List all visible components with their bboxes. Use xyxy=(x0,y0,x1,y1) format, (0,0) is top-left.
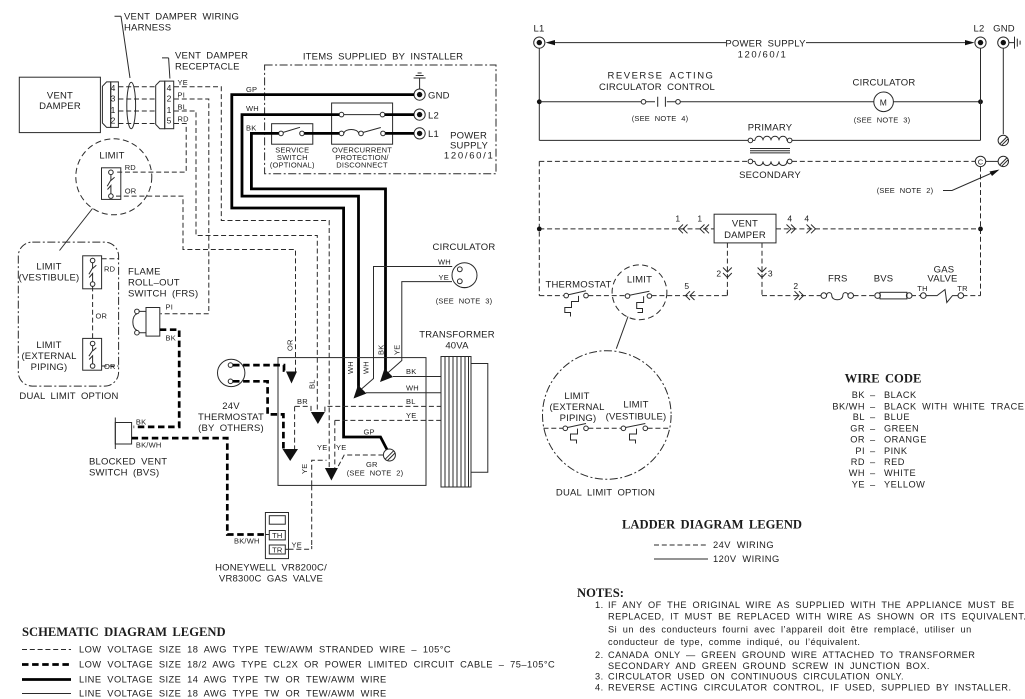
leader to receptacle xyxy=(162,58,170,79)
svg-text:GP: GP xyxy=(246,85,257,94)
vent damper box xyxy=(19,77,100,132)
node right vent damper rung xyxy=(978,227,983,232)
svg-text:4: 4 xyxy=(167,83,172,93)
left rail L1 solid xyxy=(538,48,540,140)
svg-text:THERMOSTAT: THERMOSTAT xyxy=(198,412,264,423)
leader to harness xyxy=(115,16,131,78)
svg-text:LINE VOLTAGE SIZE 18 AWG TYPE: LINE VOLTAGE SIZE 18 AWG TYPE TW OR TEW/… xyxy=(79,689,387,699)
arrow into L2 xyxy=(965,40,975,45)
node left vent damper rung xyxy=(537,227,542,232)
wire YE circulator to junction box xyxy=(384,282,452,377)
svg-text:ROLL–OUT: ROLL–OUT xyxy=(128,278,180,289)
svg-text:BLOCKED VENT: BLOCKED VENT xyxy=(89,457,167,468)
transformer lead YE xyxy=(335,420,441,468)
secondary coil xyxy=(748,159,753,164)
legend line 4: thin solid xyxy=(22,693,71,695)
svg-text:24V: 24V xyxy=(222,401,240,412)
svg-text:(SEE NOTE 4): (SEE NOTE 4) xyxy=(632,114,689,123)
svg-text:TR: TR xyxy=(272,546,283,555)
svg-text:YE: YE xyxy=(439,273,449,282)
svg-text:(SEE NOTE 3): (SEE NOTE 3) xyxy=(436,297,493,306)
svg-text:HARNESS: HARNESS xyxy=(124,23,171,34)
vent damper wiring harness lens xyxy=(127,82,136,128)
wire GP line voltage from GND terminal to junction box screw xyxy=(232,95,414,451)
overcurrent protection box xyxy=(332,103,393,144)
svg-text:1.: 1. xyxy=(595,600,604,610)
svg-text:RD: RD xyxy=(178,115,190,124)
wire OR from limit circle to junction box arrow A1 xyxy=(116,196,296,371)
svg-text:WH: WH xyxy=(362,361,371,374)
svg-text:PIPING): PIPING) xyxy=(31,362,68,373)
limit switch symbol in circle xyxy=(102,168,121,200)
wire BK line voltage from L1 to junction box xyxy=(251,133,414,375)
vent damper box (ladder) xyxy=(714,214,776,243)
svg-text:M: M xyxy=(880,97,888,107)
svg-text:BLACK WITH WHITE TRACE: BLACK WITH WHITE TRACE xyxy=(884,401,1024,411)
svg-text:LIMIT: LIMIT xyxy=(623,400,648,411)
wire YE from receptacle to junction box arrow A4 xyxy=(174,87,329,468)
svg-text:2: 2 xyxy=(793,281,798,291)
wire thermostat top to arrow A1 xyxy=(233,365,288,370)
svg-text:BK/WH: BK/WH xyxy=(234,537,260,546)
reverse acting circulator control contact xyxy=(539,101,874,103)
svg-text:YELLOW: YELLOW xyxy=(884,479,925,489)
svg-text:BVS: BVS xyxy=(874,274,894,285)
svg-text:REVERSE ACTING CIRCULATOR CONT: REVERSE ACTING CIRCULATOR CONTROL, IF US… xyxy=(608,683,1012,693)
leader from limit circle to dual limit box xyxy=(60,209,93,251)
node at circulator rung right xyxy=(978,99,983,104)
chevrons 2 pointing right xyxy=(795,291,804,300)
svg-text:YE: YE xyxy=(317,443,327,452)
svg-text:OR: OR xyxy=(286,339,295,351)
svg-text:DUAL LIMIT OPTION: DUAL LIMIT OPTION xyxy=(556,488,655,499)
svg-text:SECONDARY: SECONDARY xyxy=(739,170,801,181)
svg-text:LIMIT: LIMIT xyxy=(36,340,61,351)
svg-text:3: 3 xyxy=(768,269,773,279)
dual limit option box xyxy=(18,242,118,386)
svg-text:PI: PI xyxy=(178,90,186,99)
svg-text:LIMIT: LIMIT xyxy=(99,151,124,162)
svg-text:PIPING): PIPING) xyxy=(560,413,597,424)
items supplied by installer box xyxy=(265,65,496,174)
svg-text:1: 1 xyxy=(167,105,172,115)
svg-text:SWITCH (FRS): SWITCH (FRS) xyxy=(128,289,198,300)
vent damper receptacle J1 xyxy=(156,81,165,129)
svg-text:WH: WH xyxy=(849,468,865,478)
24V thermostat xyxy=(218,359,245,386)
stub RD to box edge xyxy=(102,258,119,260)
svg-text:CIRCULATOR USED ON CONTINUOUS: CIRCULATOR USED ON CONTINUOUS CIRCULATIO… xyxy=(608,672,904,682)
svg-text:VALVE: VALVE xyxy=(927,274,957,285)
svg-text:LOW VOLTAGE SIZE 18/2 AWG TYPE: LOW VOLTAGE SIZE 18/2 AWG TYPE CL2X OR P… xyxy=(79,660,555,670)
svg-text:–: – xyxy=(870,401,876,411)
svg-text:BL: BL xyxy=(853,412,865,422)
svg-text:WH: WH xyxy=(406,383,419,392)
svg-text:DUAL LIMIT OPTION: DUAL LIMIT OPTION xyxy=(19,391,118,402)
svg-text:BR: BR xyxy=(297,397,308,406)
svg-text:LOW VOLTAGE SIZE 18 AWG TYPE T: LOW VOLTAGE SIZE 18 AWG TYPE TEW/AWM STR… xyxy=(79,645,451,655)
svg-text:L1: L1 xyxy=(534,24,545,35)
transformer lead BK xyxy=(393,376,441,378)
svg-text:1: 1 xyxy=(675,214,680,224)
svg-text:BL: BL xyxy=(178,102,188,111)
wire GR from screw to arrow A4 xyxy=(337,455,383,469)
thermostat contact xyxy=(564,293,569,298)
FRS fusible link xyxy=(821,293,827,299)
svg-text:RD: RD xyxy=(125,163,137,172)
wire BK from FRS to BVS xyxy=(134,330,180,427)
svg-text:PRIMARY: PRIMARY xyxy=(748,123,793,134)
legend line 1: thin dashed xyxy=(22,649,71,651)
wire WH line voltage from L2 to junction box xyxy=(242,115,414,391)
L2 rail down xyxy=(980,48,982,140)
svg-text:NOTES:: NOTES: xyxy=(577,586,624,600)
svg-text:TH: TH xyxy=(917,284,927,293)
svg-text:(EXTERNAL: (EXTERNAL xyxy=(21,351,76,362)
terminal L1 xyxy=(414,128,425,139)
svg-text:YE: YE xyxy=(292,541,302,550)
arrow into L1 xyxy=(546,40,556,45)
svg-text:(VESTIBULE): (VESTIBULE) xyxy=(606,411,667,422)
vent damper lead 3 xyxy=(761,243,763,296)
svg-text:5: 5 xyxy=(167,115,172,125)
svg-text:GREEN: GREEN xyxy=(884,423,919,433)
arrow A2 (BL junction) xyxy=(311,412,325,424)
svg-text:CIRCULATOR: CIRCULATOR xyxy=(853,77,916,88)
terminal GND (ladder) xyxy=(998,37,1009,48)
svg-text:40VA: 40VA xyxy=(445,341,469,352)
C terminal xyxy=(975,156,985,166)
svg-text:1: 1 xyxy=(111,105,116,115)
left rail 24V dashed xyxy=(538,161,540,295)
svg-text:OR: OR xyxy=(125,187,137,196)
svg-text:2: 2 xyxy=(716,269,721,279)
svg-text:TRANSFORMER: TRANSFORMER xyxy=(419,330,495,341)
ground symbol right of GND xyxy=(1009,37,1020,49)
svg-text:LIMIT: LIMIT xyxy=(36,262,61,273)
svg-text:5: 5 xyxy=(684,281,689,291)
chevrons 4 4 pointing right xyxy=(787,225,796,234)
svg-text:WH: WH xyxy=(246,104,259,113)
svg-text:TR: TR xyxy=(957,284,968,293)
breaker blade xyxy=(363,128,381,133)
terminal L2 (ladder) xyxy=(975,37,986,48)
svg-text:PINK: PINK xyxy=(884,446,908,456)
svg-text:GND: GND xyxy=(993,24,1015,35)
limit circle (detail) xyxy=(76,139,152,215)
svg-text:4: 4 xyxy=(787,214,792,224)
svg-text:WIRE CODE: WIRE CODE xyxy=(845,372,922,386)
dual limit option circle (ladder) xyxy=(543,351,672,480)
svg-text:BLUE: BLUE xyxy=(884,412,910,422)
svg-text:VENT DAMPER WIRING: VENT DAMPER WIRING xyxy=(124,12,239,23)
power supply wire with arrows xyxy=(548,42,972,44)
svg-text:LINE VOLTAGE SIZE 14 AWG TYPE: LINE VOLTAGE SIZE 14 AWG TYPE TW OR TEW/… xyxy=(79,675,387,685)
svg-text:RD: RD xyxy=(851,457,865,467)
svg-text:CIRCULATOR: CIRCULATOR xyxy=(433,242,496,253)
svg-text:–: – xyxy=(870,390,876,400)
svg-text:YE: YE xyxy=(393,345,402,355)
svg-text:BK/WH: BK/WH xyxy=(136,441,162,450)
svg-text:–: – xyxy=(870,423,876,433)
gas valve contact TH TR xyxy=(921,293,927,299)
svg-text:WH: WH xyxy=(438,258,451,267)
svg-text:SWITCH (BVS): SWITCH (BVS) xyxy=(89,468,159,479)
svg-text:L2: L2 xyxy=(428,110,439,121)
svg-text:YE: YE xyxy=(178,78,188,87)
limit circle (ladder) xyxy=(612,265,667,320)
tick TH to outer box xyxy=(265,534,269,536)
svg-text:3: 3 xyxy=(111,94,116,104)
svg-text:–: – xyxy=(870,435,876,445)
svg-text:Si un des conducteurs fourni a: Si un des conducteurs fourni avec l’appa… xyxy=(608,625,972,635)
svg-text:IF ANY OF THE ORIGINAL WIRE AS: IF ANY OF THE ORIGINAL WIRE AS SUPPLIED … xyxy=(608,600,1015,610)
svg-text:RECEPTACLE: RECEPTACLE xyxy=(175,62,240,73)
notes text xyxy=(595,600,1025,693)
upper ground screw xyxy=(998,135,1008,145)
wire circulator to L2 rail xyxy=(893,101,980,103)
stub OR to box edge xyxy=(102,365,119,367)
svg-text:(OPTIONAL): (OPTIONAL) xyxy=(270,161,315,170)
svg-text:FRS: FRS xyxy=(828,274,848,285)
right rail 24V dashed xyxy=(980,167,982,296)
svg-text:120V WIRING: 120V WIRING xyxy=(713,554,780,564)
svg-text:4: 4 xyxy=(111,83,116,93)
limit external piping contact (ladder) xyxy=(563,426,568,431)
svg-text:VENT: VENT xyxy=(47,90,73,101)
svg-text:L2: L2 xyxy=(974,24,985,35)
vent damper lead 2 xyxy=(726,243,728,296)
wire nut arrow for BK junction xyxy=(380,369,393,383)
limit external piping switch xyxy=(83,338,102,370)
wire C to lower screw xyxy=(986,160,998,162)
svg-text:POWER SUPPLY: POWER SUPPLY xyxy=(725,38,806,49)
svg-text:REPLACED, IT MUST BE REPLACED: REPLACED, IT MUST BE REPLACED WITH WIRE … xyxy=(608,612,1025,622)
bottom rung right portion xyxy=(762,295,981,297)
svg-text:PI: PI xyxy=(166,303,174,312)
limit vestibule contact (ladder) xyxy=(621,426,626,431)
svg-text:RD: RD xyxy=(104,265,116,274)
svg-text:CANADA ONLY — GREEN GROUND WIR: CANADA ONLY — GREEN GROUND WIRE ATTACHED… xyxy=(608,650,975,660)
arrow A3 (thermostat + BR) xyxy=(283,449,299,461)
svg-text:CIRCULATOR CONTROL: CIRCULATOR CONTROL xyxy=(599,82,715,93)
terminal GND xyxy=(414,89,425,100)
wire WH circulator to junction box xyxy=(358,267,453,393)
transformer lead BL xyxy=(295,406,441,411)
primary coil xyxy=(748,138,753,143)
24V wiring sample xyxy=(654,544,708,546)
honeywell gas valve box xyxy=(265,513,288,559)
BVS symbol xyxy=(875,293,881,299)
dashed wire through dual limits xyxy=(544,427,671,429)
wire YE from TR xyxy=(285,548,288,550)
leader from limit to dual limit circle xyxy=(616,317,628,349)
svg-text:YE: YE xyxy=(406,411,416,420)
flame roll-out switch FRS xyxy=(146,308,160,337)
circulator motor M xyxy=(874,92,894,112)
svg-text:–: – xyxy=(870,446,876,456)
ground screw in junction box xyxy=(383,449,395,461)
wire YE from gas valve to arrow A4 xyxy=(312,460,327,485)
svg-text:BK: BK xyxy=(136,418,146,427)
svg-text:GR: GR xyxy=(850,423,865,433)
wire BR from BL lead to arrow A3 xyxy=(294,406,296,449)
transformer lead WH xyxy=(366,392,441,394)
svg-text:(VESTIBULE): (VESTIBULE) xyxy=(19,273,80,284)
transformer bracket xyxy=(471,364,488,473)
svg-text:BLACK: BLACK xyxy=(884,390,917,400)
arrow A1 (OR + thermostat) xyxy=(286,372,297,384)
legend line 3: thick solid xyxy=(22,678,71,681)
svg-text:RED: RED xyxy=(884,457,905,467)
chevron 5 pointing left xyxy=(686,291,695,300)
svg-text:–: – xyxy=(870,457,876,467)
vent damper rung right xyxy=(776,228,981,230)
svg-text:SECONDARY AND GREEN GROUND SCR: SECONDARY AND GREEN GROUND SCREW IN JUNC… xyxy=(608,661,930,671)
svg-text:BK/WH: BK/WH xyxy=(832,401,865,411)
svg-text:1: 1 xyxy=(697,214,702,224)
arrow A4 (YE junction) xyxy=(325,468,338,481)
svg-text:3.: 3. xyxy=(595,672,604,682)
svg-text:BK: BK xyxy=(166,334,176,343)
svg-text:YE: YE xyxy=(336,443,346,452)
svg-text:DAMPER: DAMPER xyxy=(39,101,81,112)
svg-text:LIMIT: LIMIT xyxy=(564,391,589,402)
transformer coil box xyxy=(441,357,471,488)
vent damper connector plug P1 xyxy=(102,82,110,128)
limit contact xyxy=(625,294,630,299)
legend line 2: thick dashed xyxy=(22,663,71,666)
svg-text:OR: OR xyxy=(850,435,865,445)
svg-text:–: – xyxy=(870,468,876,478)
terminal L2 xyxy=(414,109,425,120)
transformer core xyxy=(750,149,790,153)
svg-text:2: 2 xyxy=(111,115,116,125)
svg-text:4: 4 xyxy=(804,214,809,224)
svg-text:ORANGE: ORANGE xyxy=(884,435,927,445)
wire PI from receptacle to FRS xyxy=(161,99,209,314)
svg-text:(BY OTHERS): (BY OTHERS) xyxy=(198,423,264,434)
svg-text:conducteur de type, comme indi: conducteur de type, comme indiqué, ou l’… xyxy=(608,637,860,647)
svg-text:DISCONNECT: DISCONNECT xyxy=(336,161,388,170)
secondary rung dashed xyxy=(539,160,975,162)
bottom rung left portion xyxy=(539,295,727,297)
svg-text:VR8300C GAS VALVE: VR8300C GAS VALVE xyxy=(219,574,323,585)
svg-text:TH: TH xyxy=(272,531,282,540)
svg-text:BK: BK xyxy=(246,124,256,133)
svg-text:2: 2 xyxy=(167,94,172,104)
wire BL from receptacle to junction box arrow A2 xyxy=(174,111,317,412)
svg-text:120/60/1: 120/60/1 xyxy=(738,49,788,60)
svg-text:–: – xyxy=(870,412,876,422)
vent damper rung left xyxy=(539,228,714,230)
blocked vent switch BVS xyxy=(115,423,131,445)
svg-text:VENT DAMPER: VENT DAMPER xyxy=(175,51,248,62)
ground symbol xyxy=(414,73,426,89)
svg-text:BK: BK xyxy=(377,345,386,355)
svg-text:VENT: VENT xyxy=(732,219,758,230)
svg-text:ITEMS SUPPLIED BY INSTALLER: ITEMS SUPPLIED BY INSTALLER xyxy=(303,52,463,63)
svg-text:WH: WH xyxy=(346,361,355,374)
circulator (schematic) xyxy=(452,263,477,288)
wire OR between limits xyxy=(92,286,94,341)
120V wiring sample xyxy=(654,558,708,560)
svg-text:–: – xyxy=(870,479,876,489)
svg-text:C: C xyxy=(978,157,984,166)
chevrons 1 1 pointing left xyxy=(679,225,688,234)
svg-text:(SEE NOTE 2): (SEE NOTE 2) xyxy=(347,469,404,478)
wire BK/WH from BVS to gas valve TH xyxy=(132,438,266,534)
node at circulator rung left xyxy=(537,99,542,104)
breaker arc xyxy=(344,130,359,134)
svg-text:REVERSE ACTING: REVERSE ACTING xyxy=(608,70,715,81)
svg-text:(SEE NOTE 3): (SEE NOTE 3) xyxy=(854,116,911,125)
svg-text:THERMOSTAT: THERMOSTAT xyxy=(545,279,611,290)
terminal L1 (ladder) xyxy=(534,37,545,48)
limit vestibule switch xyxy=(83,256,102,289)
svg-text:120/60/1: 120/60/1 xyxy=(444,151,495,162)
primary rung xyxy=(539,139,980,141)
svg-text:HONEYWELL VR8200C/: HONEYWELL VR8200C/ xyxy=(215,563,327,574)
svg-text:BL: BL xyxy=(406,397,416,406)
svg-text:(EXTERNAL: (EXTERNAL xyxy=(549,402,604,413)
svg-text:OR: OR xyxy=(96,312,108,321)
svg-text:L1: L1 xyxy=(428,129,439,140)
svg-text:2.: 2. xyxy=(595,650,604,660)
wire RD from receptacle to limit circle xyxy=(116,124,186,173)
svg-text:GP: GP xyxy=(364,428,375,437)
svg-text:FLAME: FLAME xyxy=(128,267,161,278)
svg-text:PI: PI xyxy=(855,446,865,456)
svg-text:YE: YE xyxy=(852,479,865,489)
svg-text:BK: BK xyxy=(406,367,416,376)
svg-text:WHITE: WHITE xyxy=(884,468,916,478)
harness wires between connector and receptacle xyxy=(118,87,155,124)
svg-text:YE: YE xyxy=(300,464,309,474)
wire nut arrow for WH junction xyxy=(354,385,367,399)
svg-text:GND: GND xyxy=(428,90,450,101)
junction box xyxy=(278,358,426,486)
svg-text:LADDER DIAGRAM LEGEND: LADDER DIAGRAM LEGEND xyxy=(622,518,802,532)
wire thermostat bottom to arrow A3 xyxy=(233,381,283,449)
service switch box xyxy=(272,124,313,145)
svg-text:4.: 4. xyxy=(595,683,604,693)
lower ground screw xyxy=(998,156,1008,166)
svg-text:(SEE NOTE 2): (SEE NOTE 2) xyxy=(877,186,934,195)
svg-text:24V WIRING: 24V WIRING xyxy=(713,540,774,550)
service switch blade xyxy=(283,127,300,132)
svg-text:BK: BK xyxy=(852,390,866,400)
wire code table xyxy=(832,390,1024,489)
svg-text:BL: BL xyxy=(308,379,317,389)
svg-text:LIMIT: LIMIT xyxy=(627,274,652,285)
GND rail down to screw xyxy=(1002,48,1004,134)
svg-text:SCHEMATIC DIAGRAM LEGEND: SCHEMATIC DIAGRAM LEGEND xyxy=(22,625,226,639)
svg-text:DAMPER: DAMPER xyxy=(724,230,766,241)
